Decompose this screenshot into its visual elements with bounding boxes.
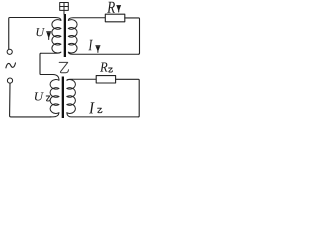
- transformer 甲 iron core: [64, 14, 66, 57]
- wire: R甲 to right rail, right rail down to bottom of top loop: [125, 18, 140, 54]
- transformer 乙 secondary winding L4: [67, 79, 138, 117]
- wire: left rail top (source to top-left corner to transformer 甲 primary): [9, 18, 56, 50]
- transformer 乙 iron core: [62, 77, 64, 119]
- subscript 甲 of U甲: [47, 32, 51, 40]
- wire: R乙 to right rail, right rail down to bottom bus: [116, 79, 140, 117]
- resistor R甲 box: [105, 14, 125, 22]
- transformer 乙 primary winding L3: [50, 75, 59, 117]
- label R甲 (top load resistor): [107, 2, 115, 13]
- label I甲 (current in 甲 secondary): [88, 40, 92, 51]
- subscript 乙 of R乙: [109, 68, 113, 72]
- wire: series link 甲 primary to 乙 primary: [40, 53, 53, 74]
- resistor R乙 box: [96, 76, 115, 83]
- AC source tilde ~: [6, 63, 16, 68]
- subscript 甲 of R甲: [117, 6, 121, 12]
- label U甲 (voltage across 甲 primary): [37, 28, 45, 36]
- label 甲 (transformer A name, drawn glyph): [60, 3, 69, 15]
- label I乙 (current in 乙 secondary): [89, 102, 95, 113]
- label U乙 (voltage across 乙 primary): [35, 92, 44, 100]
- transformer 甲 primary winding L1: [41, 18, 61, 54]
- AC source terminal (bottom circle): [7, 78, 12, 83]
- wire: left rail bottom (source to bottom-left corner to bottom bus): [10, 83, 51, 117]
- AC source terminal (top circle): [7, 49, 12, 54]
- subscript 乙 of U乙: [46, 96, 50, 101]
- transformer 甲 secondary winding L2: [68, 18, 138, 55]
- label 乙 (transformer B name, drawn glyph): [59, 62, 68, 72]
- subscript 乙 of I乙: [98, 108, 102, 113]
- subscript 甲 of I甲: [96, 46, 100, 53]
- label R乙 (bottom load resistor): [100, 63, 108, 72]
